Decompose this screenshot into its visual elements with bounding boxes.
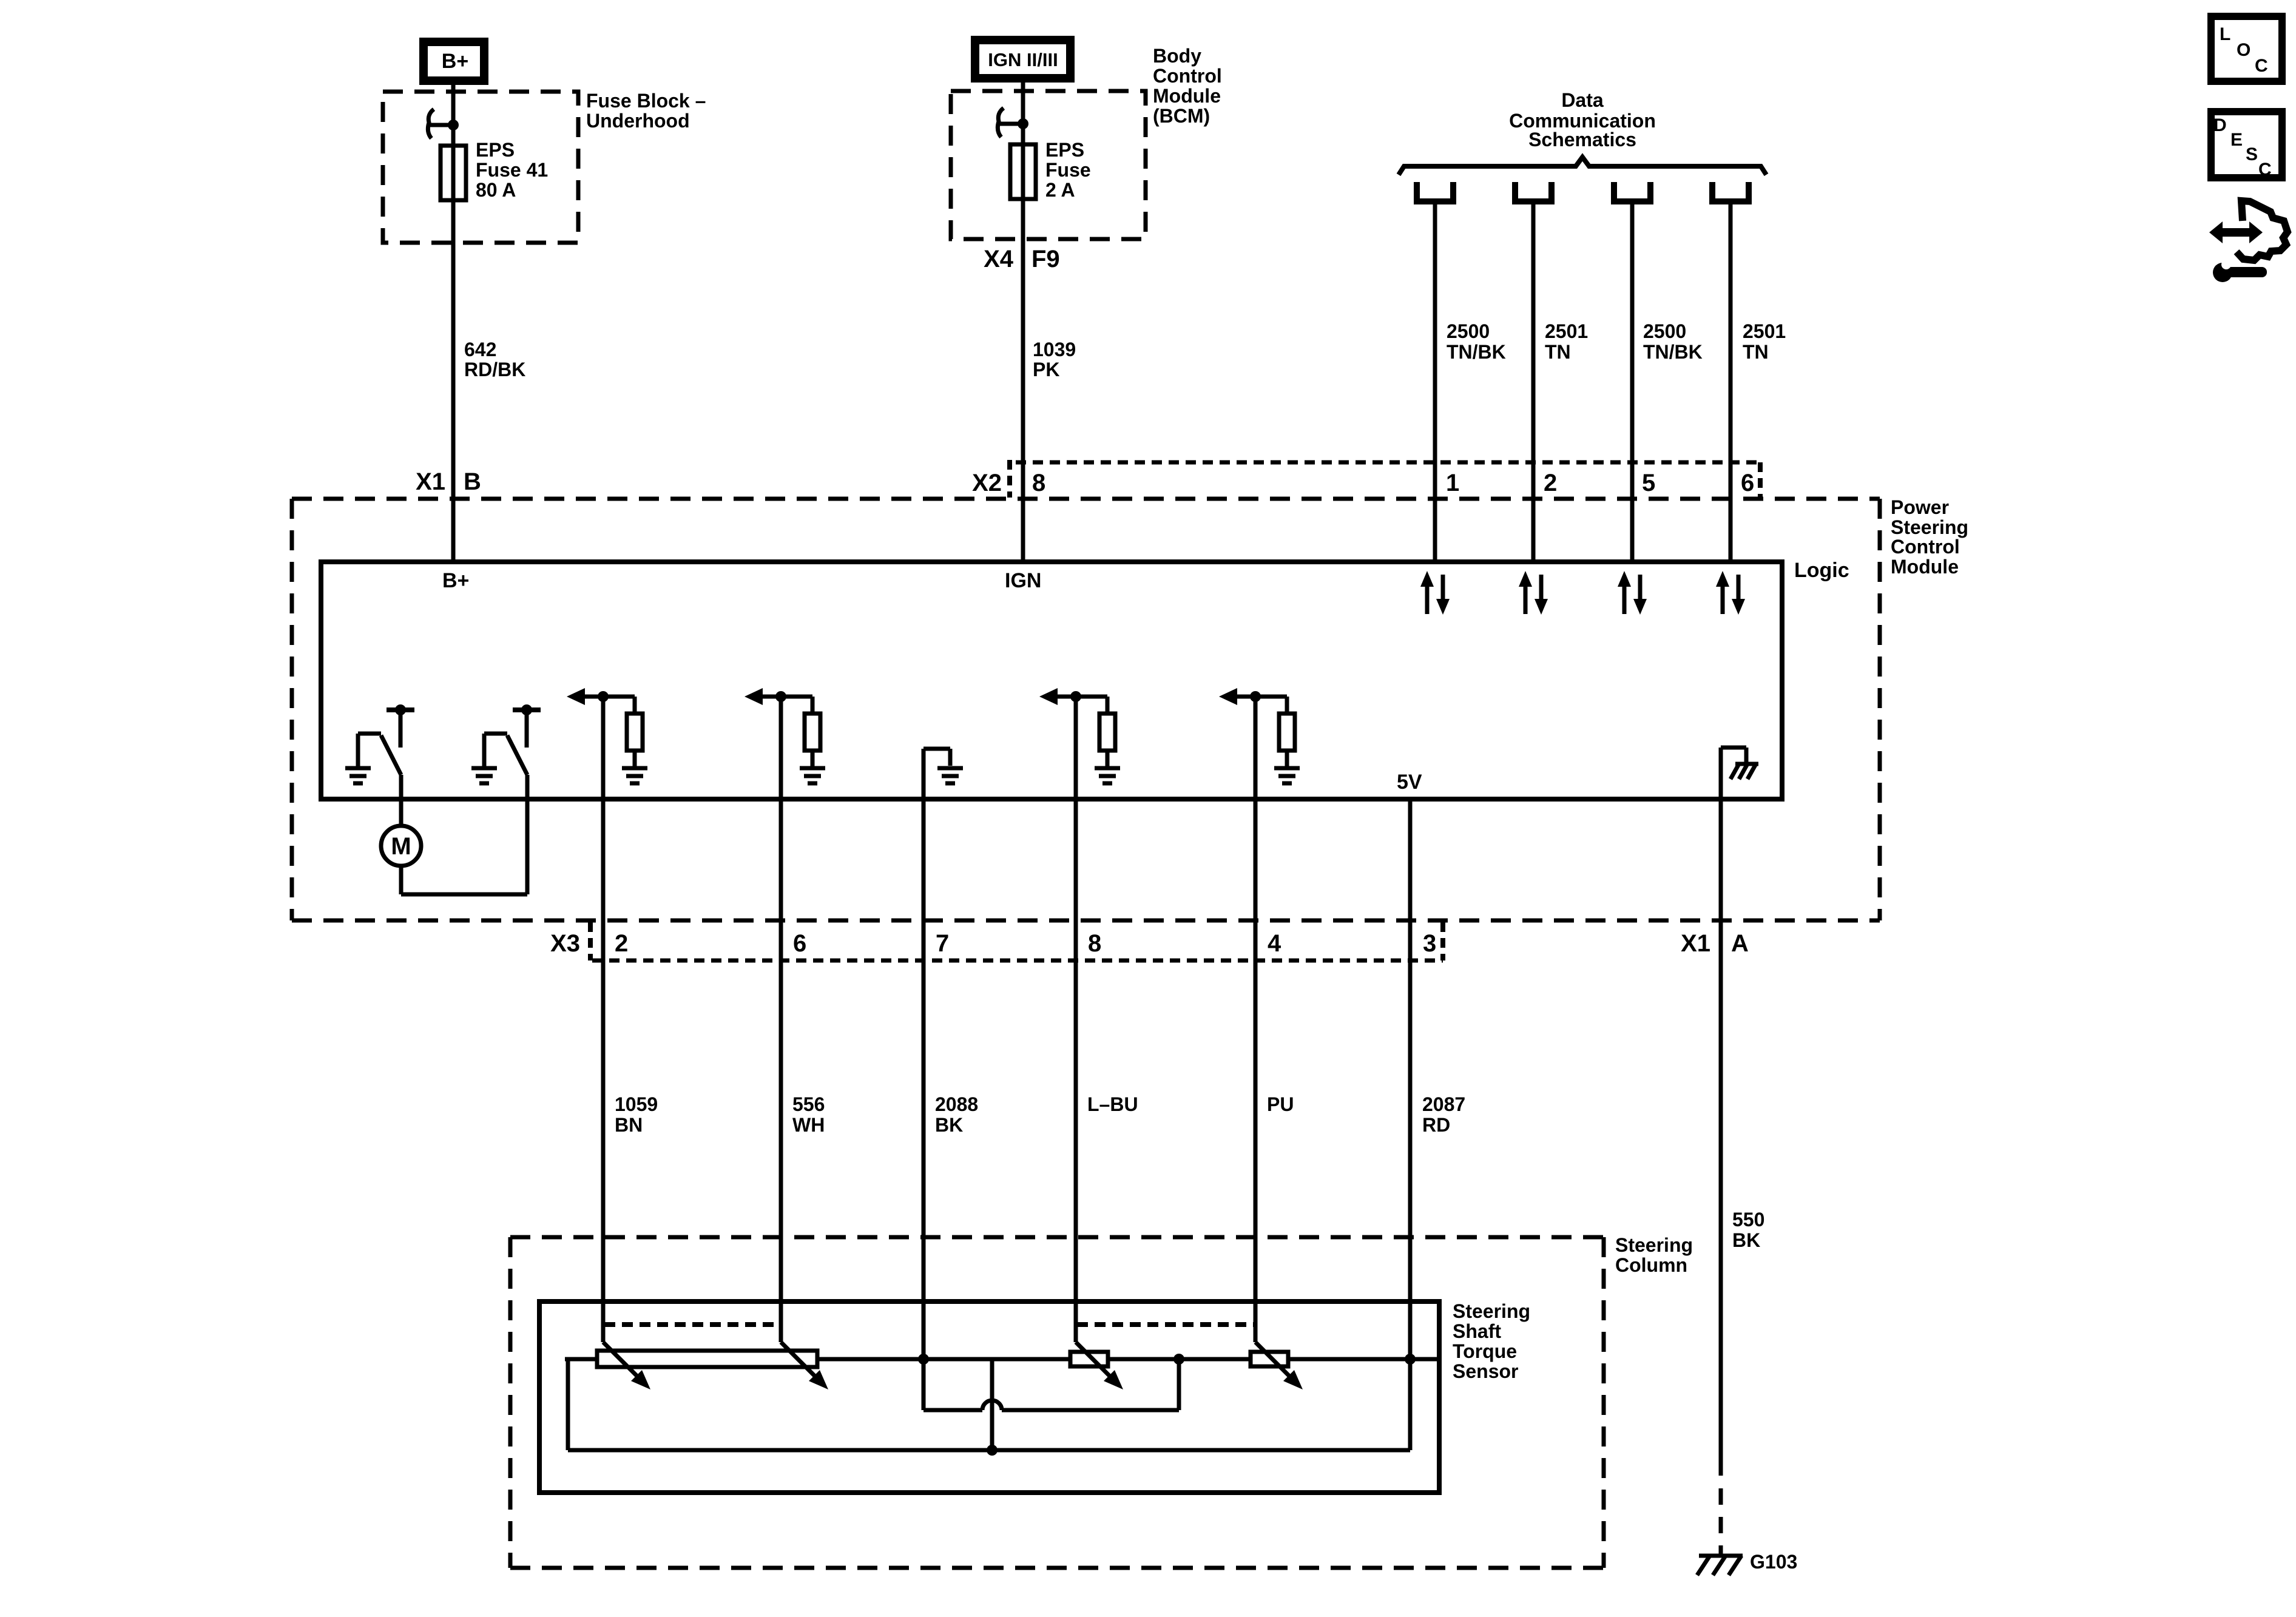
svg-text:Steering: Steering (1891, 516, 1968, 538)
node 5V junction (1405, 1354, 1416, 1365)
svg-text:2087: 2087 (1422, 1093, 1465, 1115)
X2 strip right separator (1758, 462, 1763, 498)
svg-text:Steering: Steering (1615, 1234, 1693, 1256)
diagnostic icon (arrow, connector outline, wrench) (2209, 201, 2288, 282)
wire 2501 TN (4) (1729, 204, 1733, 562)
svg-text:6: 6 (793, 930, 806, 957)
svg-text:550: 550 (1732, 1209, 1764, 1230)
wiper arrow pin2 (603, 1342, 650, 1389)
switch Q1 (motor high side) (358, 704, 414, 826)
resistor R4 (1279, 714, 1295, 751)
svg-text:L–BU: L–BU (1087, 1093, 1138, 1115)
wire 2088 BK (pin7) (922, 749, 926, 1359)
svg-text:F9: F9 (1032, 246, 1060, 272)
wire motor loop (401, 866, 527, 894)
svg-text:PU: PU (1267, 1093, 1294, 1115)
svg-text:TN: TN (1545, 341, 1571, 363)
resistor R2 (805, 714, 820, 751)
X3 separator (588, 922, 593, 960)
wire 556 WH (pin6) (779, 697, 783, 1342)
ground (R1) (622, 768, 647, 783)
potentiometer track (sensor 1) (597, 1351, 817, 1367)
fuse F9 EPS Fuse 2A (1010, 139, 1091, 201)
wiper link dashed (sensor 1) (604, 1322, 782, 1327)
svg-text:1: 1 (1446, 470, 1459, 496)
wire sensor return bottom (568, 1448, 1410, 1453)
switch Q2 (motor low side) (484, 704, 541, 894)
fuse block underhood dashed box (383, 92, 578, 243)
node BK junction (918, 1354, 929, 1365)
DESC icon box (2211, 112, 2282, 180)
svg-text:Underhood: Underhood (586, 110, 690, 132)
svg-text:Logic: Logic (1794, 559, 1849, 582)
svg-text:7: 7 (936, 930, 949, 957)
svg-text:5V: 5V (1397, 771, 1422, 794)
low reference hook pin7 (923, 749, 950, 766)
svg-text:Torque: Torque (1453, 1340, 1517, 1362)
svg-text:A: A (1731, 930, 1749, 957)
wire L-BU (pin8) (1074, 697, 1078, 1342)
svg-text:Body: Body (1153, 45, 1201, 67)
steering shaft torque sensor box (539, 1301, 1439, 1493)
svg-text:Schematics: Schematics (1528, 129, 1636, 150)
svg-text:X2: X2 (972, 470, 1002, 496)
wire sensor return left (566, 1359, 570, 1450)
connector U 4 (1709, 182, 1752, 204)
svg-text:Module: Module (1153, 85, 1221, 107)
svg-text:EPS: EPS (1045, 139, 1084, 161)
svg-text:3: 3 (1423, 930, 1436, 957)
connector U 3 (1611, 182, 1653, 204)
ground (pin7) (937, 768, 963, 783)
connector terminal hook (fuse block) (428, 109, 459, 138)
svg-text:2501: 2501 (1743, 320, 1786, 342)
svg-text:TN/BK: TN/BK (1643, 341, 1703, 363)
svg-text:Steering: Steering (1453, 1300, 1530, 1322)
X2 connector strip dotted line (1016, 461, 1760, 465)
svg-text:X1: X1 (416, 468, 445, 495)
brace (1399, 157, 1766, 175)
svg-text:80 A: 80 A (476, 179, 516, 201)
potentiometer track pin8 (1070, 1352, 1108, 1366)
svg-text:G103: G103 (1750, 1551, 1797, 1573)
svg-text:EPS: EPS (476, 139, 515, 161)
svg-text:Fuse Block –: Fuse Block – (586, 90, 706, 112)
svg-text:C: C (2258, 160, 2272, 180)
svg-text:S: S (2246, 144, 2258, 164)
svg-text:TN: TN (1743, 341, 1769, 363)
node bypass junction (1173, 1354, 1184, 1365)
svg-text:Power: Power (1891, 496, 1949, 518)
svg-text:Module: Module (1891, 556, 1959, 578)
driver group pin6: arrow, resistor, ground (745, 688, 812, 714)
svg-text:C: C (2255, 56, 2268, 76)
svg-text:Control: Control (1891, 536, 1960, 558)
svg-text:B+: B+ (442, 50, 468, 73)
sensor bus wire (565, 1357, 1439, 1362)
svg-text:2500: 2500 (1643, 320, 1686, 342)
wire 642 RD/BK (B+ feed) (451, 85, 456, 562)
wire 550 BK dashed segment (1719, 1488, 1723, 1555)
wire 1059 BN (pin2) (601, 697, 606, 1342)
svg-text:(BCM): (BCM) (1153, 105, 1210, 127)
svg-text:2501: 2501 (1545, 320, 1588, 342)
svg-text:WH: WH (792, 1114, 825, 1136)
svg-text:1039: 1039 (1033, 339, 1076, 360)
svg-text:TN/BK: TN/BK (1447, 341, 1506, 363)
svg-text:8: 8 (1032, 470, 1045, 496)
svg-text:M: M (391, 833, 411, 860)
svg-text:D: D (2213, 115, 2227, 135)
ground G103 (1697, 1551, 1797, 1575)
svg-text:BK: BK (935, 1114, 963, 1136)
wiper arrow pin6 (781, 1342, 828, 1389)
svg-text:RD: RD (1422, 1114, 1450, 1136)
svg-text:Column: Column (1615, 1254, 1687, 1276)
wire bypass with hop (923, 1359, 1179, 1410)
wire center tap (990, 1359, 994, 1450)
svg-text:Data: Data (1561, 89, 1604, 111)
svg-text:X3: X3 (550, 930, 580, 957)
power symbol B+ (424, 42, 484, 81)
resistor R3 (1099, 714, 1115, 751)
svg-text:Fuse: Fuse (1045, 159, 1091, 181)
chassis ground (internal, X1 A) (1721, 748, 1758, 797)
X3 connector strip dotted line (592, 959, 1443, 963)
wire PU (pin4) (1254, 697, 1258, 1342)
svg-text:X1: X1 (1681, 930, 1710, 957)
svg-text:RD/BK: RD/BK (464, 359, 525, 380)
ground (R4) (1274, 768, 1300, 783)
ground (R2) (800, 768, 825, 783)
driver group pin4: arrow, resistor, ground (1219, 688, 1287, 714)
svg-text:2088: 2088 (935, 1093, 978, 1115)
CAN up/down arrows 2 (1519, 571, 1548, 615)
svg-text:O: O (2237, 40, 2250, 60)
svg-text:5: 5 (1642, 470, 1655, 496)
wire 2501 TN (2) (1531, 204, 1536, 562)
svg-text:2: 2 (615, 930, 628, 957)
PSCM outer dashed box (292, 499, 1880, 920)
body control module dashed box (951, 91, 1146, 239)
power symbol IGN II/III (975, 40, 1070, 78)
svg-text:2: 2 (1544, 470, 1557, 496)
svg-text:IGN: IGN (1005, 569, 1041, 592)
svg-text:B+: B+ (442, 569, 469, 592)
wire 1039 PK (IGN feed) (1021, 83, 1025, 562)
ground (switch Q1) (345, 768, 371, 783)
svg-text:BN: BN (615, 1114, 643, 1136)
svg-text:Control: Control (1153, 65, 1222, 87)
ground (R3) (1095, 768, 1120, 783)
wiper arrow pin4 (1255, 1342, 1303, 1389)
svg-text:PK: PK (1033, 359, 1059, 380)
svg-text:Fuse 41: Fuse 41 (476, 159, 548, 181)
svg-text:1059: 1059 (615, 1093, 658, 1115)
svg-text:E: E (2230, 130, 2243, 150)
wire 550 BK (X1 A) (1719, 799, 1723, 1476)
svg-text:IGN II/III: IGN II/III (988, 49, 1058, 70)
svg-text:2500: 2500 (1447, 320, 1490, 342)
svg-text:Shaft: Shaft (1453, 1320, 1501, 1342)
svg-text:Sensor: Sensor (1453, 1360, 1518, 1382)
svg-text:642: 642 (464, 339, 496, 360)
node center tap bottom (987, 1445, 998, 1456)
svg-text:8: 8 (1088, 930, 1101, 957)
svg-text:6: 6 (1741, 470, 1754, 496)
CAN up/down arrows 1 (1420, 571, 1450, 615)
svg-text:L: L (2220, 24, 2230, 44)
X3 strip right separator (1440, 922, 1445, 960)
wiper link dashed (sensor 2) (1077, 1322, 1257, 1327)
svg-text:556: 556 (792, 1093, 825, 1115)
potentiometer track pin4 (1251, 1352, 1288, 1366)
resistor R1 (627, 714, 643, 751)
svg-text:4: 4 (1268, 930, 1281, 957)
CAN up/down arrows 4 (1716, 571, 1745, 615)
svg-text:2 A: 2 A (1045, 179, 1075, 201)
fuse F41 EPS Fuse 41 80A (441, 139, 548, 201)
X2 separator (1007, 460, 1012, 498)
connector U 2 (1512, 182, 1555, 204)
logic box (321, 562, 1782, 799)
steering column dashed box (510, 1237, 1604, 1568)
svg-text:B: B (464, 468, 481, 495)
driver group pin8: arrow, resistor, ground (1039, 688, 1107, 714)
wiper arrow pin8 (1076, 1342, 1123, 1389)
svg-text:X4: X4 (984, 246, 1014, 272)
LOC icon box (2211, 16, 2282, 81)
svg-text:BK: BK (1732, 1229, 1760, 1251)
motor M (381, 826, 421, 866)
driver group pin2: arrow, resistor, ground (567, 688, 635, 714)
wire 2087 RD (pin3, 5V) (1408, 799, 1413, 1450)
connector U 1 (1414, 182, 1456, 204)
wire 2500 TN/BK (3) (1630, 204, 1635, 562)
wire 2500 TN/BK (1) (1433, 204, 1437, 562)
CAN up/down arrows 3 (1618, 571, 1647, 615)
ground (switch Q2) (471, 768, 497, 783)
connector terminal hook (BCM) (998, 108, 1028, 137)
